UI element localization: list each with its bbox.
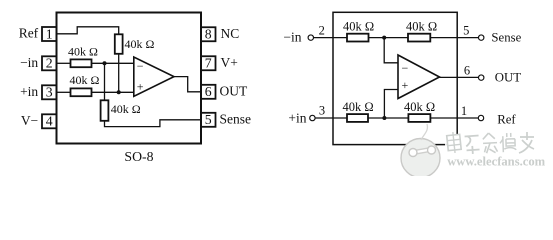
watermark glyph 4: [500, 133, 517, 153]
pin 7 box: [201, 56, 216, 70]
svg-text:www.elecfans.com: www.elecfans.com: [447, 154, 545, 168]
wire op-amp output to pin 6: [174, 77, 201, 92]
svg-text:Ref: Ref: [19, 26, 39, 41]
junction at R3 / +input: [117, 90, 121, 94]
svg-text:40k Ω: 40k Ω: [70, 73, 100, 87]
pin 5 box: [201, 113, 216, 127]
watermark logo link circle right: [428, 146, 436, 154]
op-amp U2: [398, 55, 440, 99]
watermark logo link circle left: [409, 149, 417, 157]
svg-text:2: 2: [319, 23, 325, 37]
terminal +in circle: [310, 115, 315, 120]
svg-text:V−: V−: [21, 113, 38, 128]
pin 6 box: [201, 85, 216, 99]
watermark glyph 2: [465, 136, 480, 155]
svg-text:3: 3: [319, 103, 325, 117]
wire R1 to op-amp inverting input: [92, 62, 134, 64]
svg-text:V+: V+: [221, 55, 238, 70]
resistor R7 40k: [347, 114, 368, 122]
wire -input node to op-amp inverting input: [384, 38, 398, 63]
resistor R5 40k: [347, 34, 369, 42]
svg-text:5: 5: [463, 23, 469, 37]
terminal -in circle: [308, 35, 313, 40]
svg-text:+: +: [137, 79, 144, 93]
junction -input node: [382, 36, 386, 40]
resistor R4 40k (vertical, -input node to Sense): [101, 100, 109, 121]
wire pin1 to R3 top: [57, 27, 119, 35]
svg-text:+: +: [402, 78, 409, 92]
svg-text:4: 4: [46, 114, 53, 129]
wire -input node down to R4: [104, 63, 106, 100]
svg-text:+in: +in: [20, 84, 38, 99]
resistor R8 40k: [408, 114, 430, 122]
right diagram: package outline: [333, 12, 457, 144]
watermark logo link bar: [414, 150, 431, 153]
wire R8 to Ref terminal: [430, 117, 478, 119]
pin 1 box: [42, 27, 57, 41]
wire R7 to R8: [368, 117, 408, 119]
svg-text:SO-8: SO-8: [124, 149, 153, 164]
resistor R1 40k (from -in): [71, 59, 92, 67]
wire R6 to Sense terminal: [430, 37, 478, 39]
watermark glyph 3: [483, 133, 498, 154]
wire R5 to R6: [369, 37, 409, 39]
svg-text:2: 2: [46, 56, 53, 71]
svg-text:−in: −in: [20, 55, 38, 70]
svg-text:40k Ω: 40k Ω: [68, 44, 98, 58]
svg-text:NC: NC: [221, 26, 240, 41]
wire -in to R5: [314, 37, 347, 39]
svg-text:−: −: [137, 59, 144, 73]
svg-text:OUT: OUT: [220, 83, 248, 98]
svg-text:5: 5: [205, 112, 212, 127]
terminal 6 OUT circle: [479, 75, 484, 80]
wire pin3 to R2: [57, 91, 71, 93]
svg-text:−: −: [402, 61, 409, 75]
junction at -input node: [103, 61, 107, 65]
svg-text:Sense: Sense: [220, 111, 252, 126]
pin 8 box: [201, 27, 216, 41]
pin 4 box: [42, 114, 57, 128]
svg-text:+in: +in: [288, 110, 306, 125]
resistor R2 40k (from +in): [71, 88, 92, 96]
svg-text:40k Ω: 40k Ω: [125, 37, 155, 51]
watermark logo cord: [421, 124, 427, 140]
svg-text:8: 8: [205, 27, 212, 42]
wire pin2 to R1: [57, 62, 71, 64]
watermark text backdrop: [445, 134, 536, 156]
pin 3 box: [42, 85, 57, 99]
svg-text:7: 7: [205, 56, 212, 71]
svg-text:40k Ω: 40k Ω: [343, 20, 374, 34]
svg-text:Sense: Sense: [491, 30, 521, 44]
svg-text:3: 3: [46, 85, 53, 100]
terminal 1 Ref circle: [478, 115, 483, 120]
svg-text:−in: −in: [283, 30, 301, 45]
svg-text:6: 6: [205, 84, 212, 99]
svg-text:40k Ω: 40k Ω: [343, 100, 374, 114]
terminal 5 Sense circle: [479, 35, 484, 40]
left diagram: SO-8 package outline: [57, 13, 202, 144]
wire R2 to op-amp non-inverting input: [92, 91, 134, 93]
svg-text:1: 1: [461, 104, 467, 118]
svg-text:1: 1: [46, 26, 53, 41]
resistor R3 40k (vertical, Ref to +input node): [115, 34, 123, 54]
wire op-amp output to OUT terminal: [440, 76, 479, 78]
svg-text:40k Ω: 40k Ω: [406, 20, 437, 34]
svg-text:40k Ω: 40k Ω: [111, 102, 141, 116]
watermark logo disc: [401, 139, 440, 178]
watermark glyph 1: [446, 131, 461, 153]
wire R4 to pin 5 Sense: [105, 120, 202, 127]
op-amp U1: [134, 57, 174, 96]
watermark glyph 5: [519, 132, 534, 153]
wire +input node to op-amp non-inverting input: [384, 90, 398, 119]
svg-text:Ref: Ref: [497, 113, 516, 127]
svg-text:6: 6: [464, 63, 470, 77]
svg-text:40k Ω: 40k Ω: [404, 100, 435, 114]
svg-text:OUT: OUT: [495, 71, 521, 85]
wire R3 bottom to +input line: [118, 54, 120, 93]
wire +in to R7: [315, 117, 347, 119]
junction +input node: [382, 116, 386, 120]
pin 2 box: [42, 56, 57, 70]
resistor R6 40k: [408, 34, 430, 42]
